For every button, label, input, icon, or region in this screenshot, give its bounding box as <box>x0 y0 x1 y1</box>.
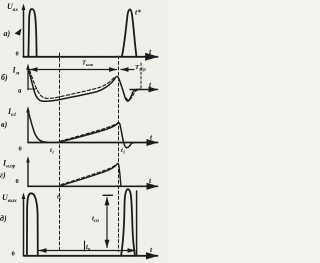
svg-text:0: 0 <box>19 146 22 153</box>
plot b: baseline segment near origin <box>28 88 36 90</box>
svg-text:0: 0 <box>16 178 19 185</box>
plot d: output pulse 2 <box>121 189 135 256</box>
svg-text:в): в) <box>1 120 8 129</box>
plot v: initial decay curve <box>28 111 48 142</box>
plot v: axis arrowhead <box>26 106 30 113</box>
svg-text:0: 0 <box>12 250 15 257</box>
plot v: time axis with arrow <box>28 142 158 144</box>
plot a: vertical axis Uvx <box>23 8 25 57</box>
plot b: vertical axis <box>27 68 29 90</box>
svg-text:г): г) <box>0 171 6 180</box>
plot d: axis arrowhead <box>22 193 26 200</box>
svg-text:б): б) <box>1 73 8 82</box>
plot b: axis arrowhead <box>26 64 30 71</box>
plot b: Tobr dimension line <box>121 69 134 71</box>
plot b: reverse spike dashed <box>119 79 140 100</box>
plot a: axis arrowhead top <box>22 4 26 11</box>
plot a: time axis with arrow <box>24 56 158 58</box>
short dashed line end of Tobr x=141 <box>140 63 142 90</box>
pointer arrow after a) <box>15 29 22 36</box>
plot b: Tnak dimension line <box>30 69 117 71</box>
svg-text:t*: t* <box>135 8 141 17</box>
plot d: short vertical at left of tv label <box>84 241 86 251</box>
plot g: vertical axis <box>27 160 29 186</box>
plot d: time axis with arrow <box>24 255 158 257</box>
plot g: rising ramp dashed <box>61 163 118 184</box>
plot v: rising ramp dashed <box>60 123 118 142</box>
dashed time line t* at x=118.5 <box>118 56 120 252</box>
plot v: rising ramp solid <box>59 123 135 148</box>
plot b: baseline right segment with arrow <box>130 89 158 91</box>
plot d: vertical axis Uvyx <box>23 197 25 256</box>
plot a: input pulse 2 <box>122 9 137 56</box>
svg-text:д): д) <box>0 214 7 223</box>
plot v: vertical axis <box>27 110 29 143</box>
plot g: axis arrowhead <box>26 156 30 163</box>
plot d: tv dimension line with right arrow <box>39 250 135 252</box>
svg-text:0: 0 <box>18 88 21 95</box>
svg-text:0: 0 <box>16 51 19 58</box>
plot g: time axis with arrow <box>28 185 158 187</box>
plot d: vertical boundary line right of pulse 2 <box>136 191 138 256</box>
plot g: rising ramp solid <box>60 163 121 186</box>
plot b: current curve solid <box>28 69 141 102</box>
plot a: input pulse 1 <box>28 9 36 57</box>
plot d: tsp vertical with down arrow <box>106 198 108 248</box>
svg-text:а): а) <box>4 29 11 38</box>
plot d: top bar of tsp marker <box>103 194 113 196</box>
dashed time line t1 at x=59.5 <box>59 53 61 252</box>
plot b: current curve dashed <box>30 71 114 99</box>
plot d: output pulse 1 <box>27 193 38 256</box>
